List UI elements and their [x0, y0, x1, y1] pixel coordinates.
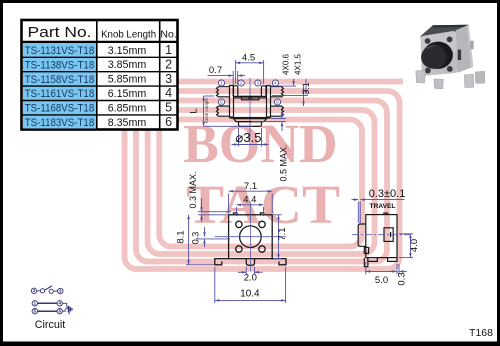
- upper left leg: [217, 87, 230, 97]
- terminal 3: [58, 288, 63, 293]
- dim 2.0: [245, 267, 247, 275]
- rivet 1: [425, 38, 431, 44]
- dim 4.4: [237, 204, 264, 206]
- terminal 2: [31, 288, 36, 293]
- svg-text:No.: No.: [160, 29, 176, 41]
- dim 0.3 left: [204, 227, 206, 237]
- left leg: [364, 258, 368, 267]
- svg-text:0.3±0.1: 0.3±0.1: [369, 188, 406, 200]
- bracket bottom: [230, 117, 271, 119]
- svg-text:0.5 MAX.: 0.5 MAX.: [278, 144, 288, 181]
- knob: [358, 224, 366, 246]
- svg-text:0.3: 0.3: [191, 232, 201, 245]
- svg-text:⌀3.5: ⌀3.5: [236, 130, 262, 145]
- plate blocks: [242, 96, 250, 99]
- slot on right face: [458, 50, 461, 60]
- dimension arrows side view: [202, 62, 307, 146]
- circled pin numbers top view: [218, 80, 280, 105]
- svg-text:3.1: 3.1: [301, 82, 311, 95]
- centerline: [249, 78, 251, 139]
- dim 7.1 top: [229, 190, 273, 192]
- lower left leg: [217, 106, 230, 116]
- svg-text:5: 5: [165, 101, 172, 115]
- wire 4-ground: [62, 303, 68, 308]
- base plate: [234, 119, 267, 122]
- svg-text:0.7: 0.7: [209, 65, 222, 76]
- button side: [422, 40, 454, 70]
- svg-text:5.85mm: 5.85mm: [108, 74, 147, 86]
- svg-text:TACT: TACT: [186, 174, 340, 235]
- svg-text:4.0: 4.0: [409, 239, 420, 252]
- svg-text:7.1: 7.1: [244, 181, 257, 192]
- dim 4.0: [399, 233, 413, 235]
- svg-text:2: 2: [165, 57, 172, 71]
- inner contact: [384, 228, 393, 242]
- blue part cells: [23, 43, 96, 129]
- wire 2-a: [37, 290, 41, 292]
- wire 6-ground: [62, 309, 65, 312]
- svg-text:L: L: [189, 108, 200, 113]
- centerline bottom-right: [352, 234, 412, 236]
- dimension texts side view: [189, 53, 311, 182]
- svg-text:4: 4: [165, 86, 172, 100]
- grid lines: [22, 20, 178, 130]
- svg-text:4.4: 4.4: [243, 194, 256, 205]
- right face: [456, 25, 474, 73]
- dim L bracket: [203, 96, 205, 126]
- button highlight: [426, 45, 440, 49]
- svg-text:2.0: 2.0: [244, 273, 257, 284]
- bracket left wall: [230, 86, 234, 118]
- dimensions of right side view: [352, 200, 414, 275]
- svg-text:8.35mm: 8.35mm: [108, 117, 147, 129]
- dim 0.5 MAX ticks: [271, 118, 286, 120]
- svg-text:TS-1168VS-T18: TS-1168VS-T18: [25, 103, 95, 115]
- svg-text:5.0: 5.0: [375, 275, 388, 286]
- body: [366, 215, 397, 258]
- dim 8.1: [188, 215, 190, 265]
- knob stub: [239, 122, 262, 127]
- wire 5-6: [38, 310, 58, 312]
- dimensions of top view: [186, 191, 286, 303]
- leg mid: [434, 79, 443, 89]
- wire b-3: [53, 290, 57, 292]
- terminal 1: [32, 301, 37, 306]
- svg-text:4X1.5: 4X1.5: [294, 53, 303, 74]
- dim 4X1.5 leader: [305, 79, 307, 95]
- svg-text:7.1: 7.1: [277, 227, 288, 240]
- button face: [420, 44, 448, 70]
- rivet 4: [447, 66, 453, 72]
- corner rivets: [236, 221, 242, 227]
- table: [22, 20, 178, 130]
- upper right leg: [271, 87, 284, 97]
- svg-text:Knob Length: Knob Length: [204, 97, 209, 122]
- left foot block: [368, 258, 377, 262]
- dim 5.0: [365, 262, 367, 275]
- svg-text:1: 1: [165, 43, 172, 57]
- svg-text:4X0.6: 4X0.6: [282, 53, 291, 74]
- svg-text:Knob Length: Knob Length: [101, 29, 156, 41]
- watermark frame: [125, 82, 404, 270]
- rivet 2: [447, 37, 453, 43]
- top bump: [384, 213, 388, 215]
- svg-text:TRAVEL: TRAVEL: [370, 203, 396, 210]
- rows: [25, 45, 95, 129]
- right face tab: [470, 41, 474, 49]
- right foot block: [388, 258, 397, 262]
- leg left: [416, 71, 425, 83]
- dim 0.3 right: [398, 264, 400, 275]
- leg right2: [475, 71, 485, 83]
- svg-text:TS-1158VS-T18: TS-1158VS-T18: [25, 74, 95, 86]
- terminal 5: [32, 309, 37, 314]
- dim 0.7: [208, 75, 234, 77]
- dimensions of side view: [204, 60, 308, 147]
- terminal 4: [57, 301, 62, 306]
- svg-text:10.4: 10.4: [240, 289, 260, 300]
- leg right1: [464, 74, 474, 87]
- svg-text:4.5: 4.5: [242, 53, 255, 64]
- top face: [421, 25, 469, 36]
- left foot: [215, 259, 229, 265]
- svg-text:3: 3: [165, 72, 172, 86]
- svg-text:0.3: 0.3: [397, 272, 408, 285]
- wire 1-4: [38, 302, 58, 304]
- svg-text:TS-1138VS-T18: TS-1138VS-T18: [25, 59, 95, 71]
- lower right leg: [271, 106, 284, 116]
- rivet 3: [425, 68, 431, 74]
- dim 4.5: [236, 62, 264, 64]
- face shading: [421, 52, 457, 76]
- dim 10.4: [214, 267, 216, 303]
- travel dim: [357, 202, 359, 224]
- pin 3 post: [261, 86, 266, 97]
- dim 4X0.6 leader: [293, 79, 295, 86]
- ground: [69, 306, 72, 314]
- dim 7.1 right: [278, 215, 280, 259]
- dim dia 3.5 ext: [238, 128, 240, 147]
- svg-text:TS-1183VS-T18: TS-1183VS-T18: [25, 117, 95, 129]
- right foot: [272, 259, 286, 265]
- crosshair: [215, 203, 286, 271]
- bracket right wall: [267, 86, 271, 118]
- svg-text:3.85mm: 3.85mm: [108, 59, 147, 71]
- pin 2 post: [233, 86, 238, 97]
- bottom notch: [246, 259, 254, 266]
- svg-text:TS-1131VS-T18: TS-1131VS-T18: [25, 45, 95, 57]
- svg-text:6.15mm: 6.15mm: [108, 88, 147, 100]
- svg-text:Part No.: Part No.: [28, 25, 92, 41]
- svg-text:6.85mm: 6.85mm: [108, 102, 147, 114]
- front face: [420, 31, 457, 76]
- svg-text:8.1: 8.1: [175, 230, 186, 243]
- svg-text:Circuit: Circuit: [35, 319, 66, 331]
- svg-text:T168: T168: [469, 327, 493, 339]
- contact b: [49, 289, 53, 293]
- dim 3.1: [303, 87, 305, 106]
- switch arm: [45, 286, 53, 290]
- svg-text:0.3 MAX.: 0.3 MAX.: [188, 171, 198, 208]
- left step: [364, 247, 368, 253]
- contact a: [40, 289, 44, 293]
- svg-text:TS-1161VS-T18: TS-1161VS-T18: [25, 88, 95, 100]
- top bumps: [234, 213, 237, 215]
- top plate: [234, 95, 267, 97]
- body square: [229, 215, 273, 259]
- svg-text:3.15mm: 3.15mm: [108, 45, 147, 57]
- center button: [240, 226, 262, 248]
- dim 0.3 MAX leader: [201, 198, 203, 212]
- table frame: [22, 20, 178, 130]
- terminal 6: [57, 309, 62, 314]
- svg-text:6: 6: [165, 115, 172, 129]
